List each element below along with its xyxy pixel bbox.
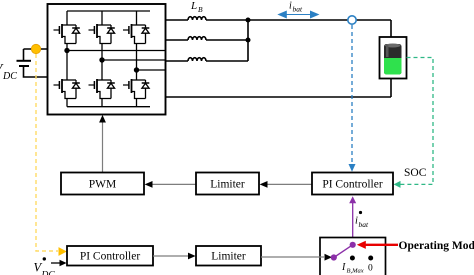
svg-text:Limiter: Limiter (211, 251, 246, 263)
svg-text:B,Max: B,Max (347, 268, 364, 275)
svg-text:PWM: PWM (89, 179, 116, 191)
svg-text:PI Controller: PI Controller (80, 251, 141, 263)
svg-text:PI Controller: PI Controller (322, 179, 383, 191)
svg-text:I: I (341, 262, 346, 273)
svg-text:bat: bat (293, 5, 304, 14)
svg-text:Limiter: Limiter (210, 179, 245, 191)
svg-text:SOC: SOC (404, 167, 427, 179)
svg-text:DC: DC (2, 71, 17, 82)
svg-text:L: L (190, 0, 197, 12)
svg-text:B: B (198, 5, 203, 14)
svg-text:0: 0 (368, 264, 373, 274)
svg-text:Operating Mode: Operating Mode (399, 240, 474, 252)
svg-text:DC: DC (41, 271, 56, 275)
svg-text:bat: bat (359, 220, 370, 229)
